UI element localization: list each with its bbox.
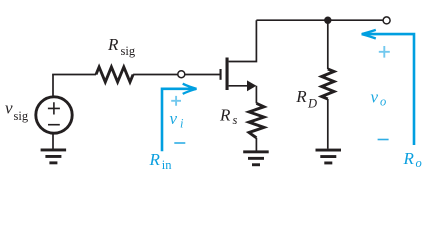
svg-text:R: R	[149, 150, 161, 169]
svg-text:o: o	[416, 156, 422, 170]
svg-text:sig: sig	[14, 109, 29, 123]
wire: R_sig to input terminal	[133, 74, 178, 76]
wire: source bottom to ground	[52, 133, 54, 149]
annotation: minus (output)	[378, 139, 389, 141]
resistor R_D	[322, 69, 334, 99]
ground (below V_sig)	[41, 149, 67, 165]
resistor R_sig	[96, 67, 133, 82]
svg-text:v: v	[371, 88, 379, 107]
wire: input terminal to gate	[184, 74, 219, 76]
resistor R_s	[249, 103, 264, 138]
ground (below R_s)	[243, 150, 269, 166]
transistor Q1 NMOS: source arrow	[247, 80, 256, 91]
annotation: minus (input)	[174, 142, 185, 144]
svg-text:R: R	[107, 35, 119, 54]
svg-text:v: v	[170, 109, 178, 128]
annotation: plus (input)	[171, 96, 181, 106]
wire: R_s to ground	[255, 138, 257, 151]
wire: R_D to ground	[327, 99, 329, 149]
wire: gate horizontal from source corner to R_sig	[52, 74, 96, 76]
transistor Q1 NMOS: gate bar	[220, 69, 222, 80]
transistor Q1 NMOS: channel bar	[226, 58, 229, 91]
junction dot (drain node)	[324, 17, 331, 24]
svg-text:R: R	[219, 106, 231, 125]
svg-text:D: D	[307, 97, 317, 111]
svg-text:o: o	[380, 94, 386, 108]
svg-text:sig: sig	[121, 44, 136, 58]
wire: junction down to R_D	[327, 20, 329, 69]
node: output terminal (open circle)	[383, 17, 390, 24]
annotation: R_o arrow (cyan elbow with arrowhead, pointing left)	[362, 34, 414, 145]
wire: vsig top lead up from source circle	[52, 75, 54, 97]
annotation: plus (output)	[379, 46, 390, 58]
svg-text:R: R	[295, 87, 307, 106]
svg-text:R: R	[403, 149, 415, 168]
svg-text:i: i	[180, 116, 184, 130]
svg-text:in: in	[162, 158, 172, 172]
source V_sig minus	[48, 124, 60, 126]
wire: top rail from drain corner to output terminal	[256, 19, 383, 21]
svg-text:v: v	[5, 99, 13, 118]
source V_sig circle	[36, 97, 72, 133]
source V_sig plus	[48, 102, 60, 114]
node: input terminal (open circle)	[178, 71, 185, 78]
transistor Q1 NMOS: source lead	[229, 85, 248, 87]
wire: source down to R_s	[255, 86, 257, 104]
transistor Q1 NMOS: drain lead	[229, 20, 257, 61]
ground (below R_D)	[316, 149, 342, 165]
svg-text:s: s	[233, 113, 238, 127]
annotation: R_in arrow (cyan elbow with arrowhead)	[162, 89, 196, 151]
